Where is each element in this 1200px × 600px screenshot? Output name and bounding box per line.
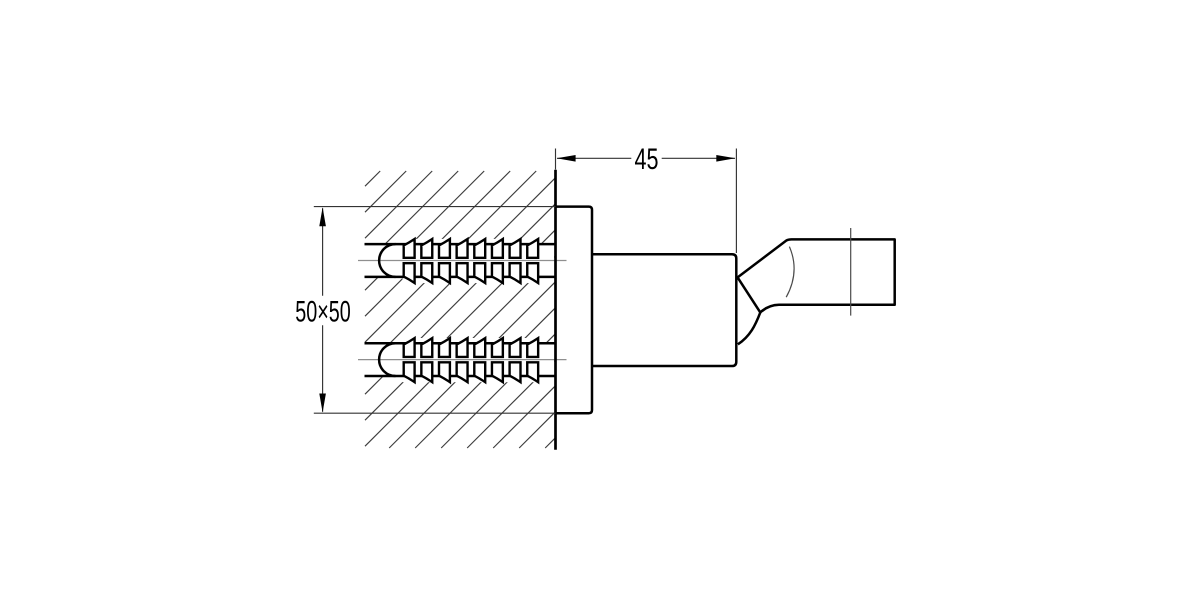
white clearance: thread envelope: [403, 239, 540, 283]
thread teeth, lower row: [404, 362, 538, 382]
thread teeth, upper row: [404, 338, 538, 357]
wall plug rounded tip (dome): [379, 244, 395, 277]
svg-text:45: 45: [635, 143, 659, 176]
wall plug centre line (axis): [358, 260, 567, 262]
upper wall plug with screw: [358, 239, 567, 283]
drilled hole outline: [365, 244, 396, 277]
thread teeth, upper row: [404, 239, 538, 258]
dim 50x50: top arrowhead: [319, 207, 326, 226]
fixture body cylinder: [592, 254, 736, 366]
bend transition thin arc: [786, 247, 794, 298]
dim 50x50: dimension line: [322, 208, 324, 412]
angled spout outlet: [738, 239, 895, 312]
dim 50x50: bottom arrowhead: [319, 394, 326, 413]
dim 45: left arrowhead: [557, 155, 576, 162]
wall plug centre line (axis): [358, 359, 567, 361]
dim 45: right arrowhead: [716, 155, 735, 162]
white clearance: thread envelope: [403, 338, 540, 382]
dim 50x50: top extension line: [314, 206, 556, 208]
wall section hatching: [365, 171, 556, 448]
lower wall plug with screw: [358, 338, 567, 382]
wall plug core lines between threads: [396, 343, 557, 376]
wall plug rounded tip (dome): [379, 343, 395, 376]
wall flange plate (escutcheon) 50x50: [556, 207, 593, 414]
spout-to-body fillet arc: [738, 312, 760, 344]
white clearance: drilled hole: [364, 244, 554, 277]
wall plug core lines between threads: [396, 244, 557, 277]
thread teeth, lower row: [404, 263, 538, 283]
thin vertical mark on outlet pipe: [850, 228, 852, 316]
svg-text:50×50: 50×50: [295, 295, 351, 328]
dim 50x50: bottom extension line: [314, 412, 556, 414]
dim 45: extension line at wall face: [555, 149, 557, 170]
white clearance: drilled hole: [364, 343, 554, 376]
drilled hole outline: [365, 343, 396, 376]
dim 45: extension line at body end: [735, 149, 737, 254]
dim 45: dimension line: [557, 157, 735, 159]
wall face line: [554, 170, 557, 450]
